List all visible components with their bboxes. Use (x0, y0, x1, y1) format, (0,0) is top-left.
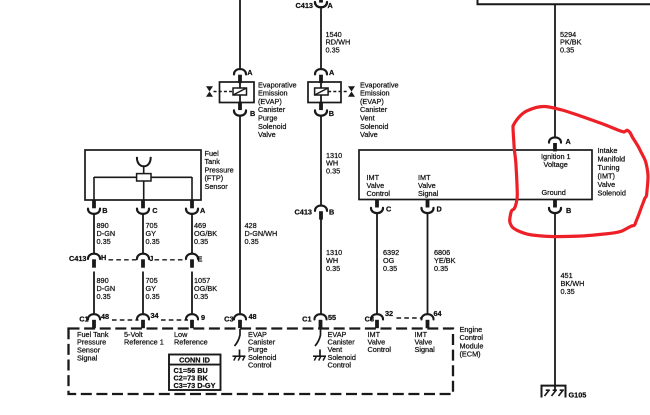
svg-text:B: B (329, 208, 334, 217)
svg-text:C1: C1 (79, 315, 88, 324)
svg-text:32: 32 (385, 309, 393, 318)
svg-text:G105: G105 (569, 390, 587, 399)
svg-text:Reference 1: Reference 1 (124, 338, 164, 347)
svg-text:C3: C3 (224, 315, 233, 324)
svg-text:B: B (250, 109, 255, 118)
svg-text:B: B (102, 206, 107, 215)
svg-text:Control: Control (248, 360, 272, 369)
svg-text:0.35: 0.35 (326, 46, 340, 55)
svg-text:Valve: Valve (360, 130, 378, 139)
svg-text:0.35: 0.35 (97, 292, 111, 301)
svg-text:Voltage: Voltage (544, 160, 568, 169)
svg-text:B: B (329, 109, 334, 118)
svg-text:C1: C1 (302, 315, 311, 324)
svg-text:Signal: Signal (77, 354, 98, 363)
svg-text:0.35: 0.35 (561, 287, 575, 296)
svg-text:B: B (566, 206, 571, 215)
svg-text:C413: C413 (296, 1, 313, 10)
svg-text:Signal: Signal (415, 345, 436, 354)
svg-text:Sensor: Sensor (205, 182, 229, 191)
svg-text:48: 48 (249, 312, 257, 321)
svg-text:CONN ID: CONN ID (179, 356, 210, 365)
svg-text:Control: Control (368, 345, 392, 354)
svg-text:48: 48 (101, 312, 109, 321)
svg-text:C413: C413 (69, 254, 86, 263)
svg-text:E: E (198, 254, 203, 263)
svg-text:0.35: 0.35 (97, 237, 111, 246)
svg-text:64: 64 (434, 309, 443, 318)
svg-text:A: A (328, 1, 334, 10)
svg-text:Ground: Ground (542, 188, 566, 197)
svg-text:Signal: Signal (418, 189, 439, 198)
svg-text:A: A (329, 68, 335, 77)
svg-text:0.35: 0.35 (146, 237, 160, 246)
svg-text:C3=73 D-GY: C3=73 D-GY (174, 381, 216, 390)
svg-text:Solenoid: Solenoid (598, 188, 626, 197)
svg-text:Control: Control (328, 360, 352, 369)
svg-text:0.35: 0.35 (326, 167, 340, 176)
svg-text:9: 9 (201, 313, 205, 322)
svg-text:D: D (437, 205, 442, 214)
svg-text:0.35: 0.35 (194, 237, 208, 246)
svg-text:0.35: 0.35 (194, 292, 208, 301)
svg-text:0.35: 0.35 (326, 264, 340, 273)
svg-text:H: H (101, 253, 106, 262)
svg-text:Reference: Reference (174, 338, 208, 347)
svg-text:C: C (386, 205, 392, 214)
svg-text:A: A (247, 68, 253, 77)
svg-text:C413: C413 (295, 208, 312, 217)
svg-text:Control: Control (367, 189, 391, 198)
svg-text:C: C (152, 206, 158, 215)
svg-text:Valve: Valve (258, 130, 276, 139)
svg-text:0.35: 0.35 (146, 292, 160, 301)
svg-text:0.35: 0.35 (560, 46, 574, 55)
svg-text:55: 55 (328, 313, 336, 322)
svg-text:0.35: 0.35 (434, 264, 448, 273)
svg-text:A: A (200, 206, 206, 215)
svg-text:C3: C3 (365, 315, 374, 324)
svg-text:34: 34 (151, 311, 160, 320)
svg-text:J: J (149, 254, 153, 263)
svg-text:A: A (566, 137, 572, 146)
svg-text:0.35: 0.35 (383, 264, 397, 273)
svg-text:0.35: 0.35 (245, 237, 259, 246)
svg-text:(ECM): (ECM) (460, 350, 481, 359)
